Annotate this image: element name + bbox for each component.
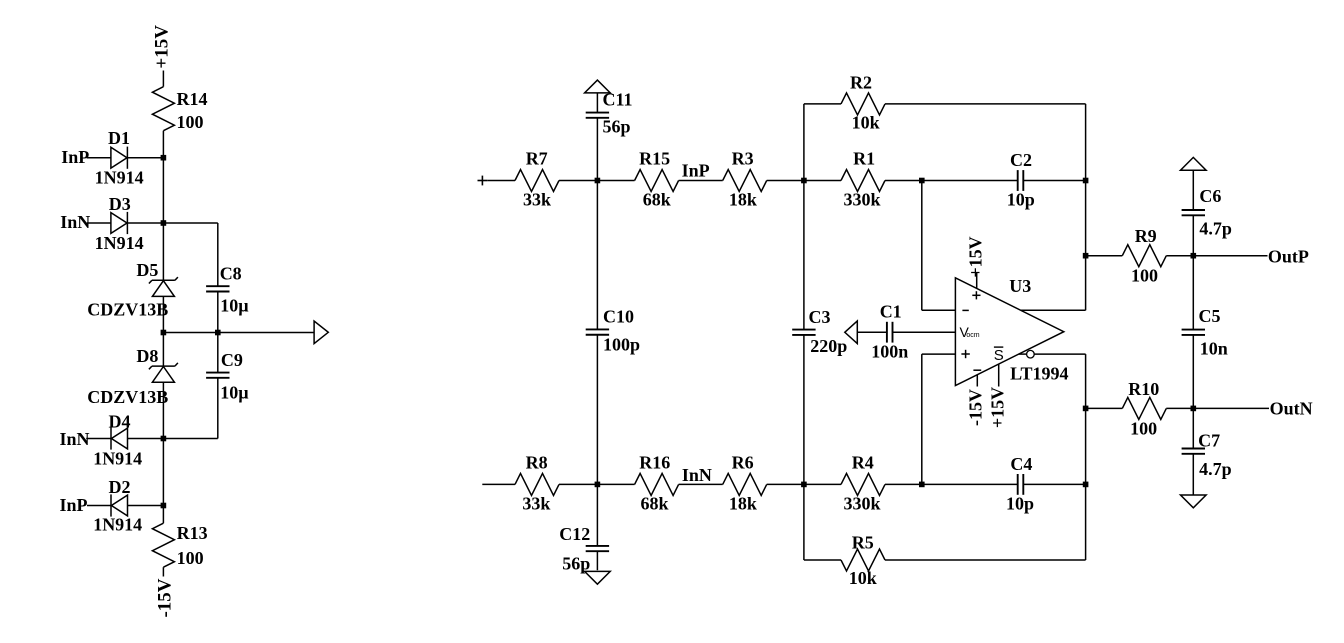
svg-text:100: 100 — [1131, 266, 1158, 286]
wire R2 down to C2 node — [1085, 104, 1087, 181]
wire C7 to ground arrow — [1192, 454, 1194, 496]
svg-text:D4: D4 — [109, 411, 131, 431]
wire R5 right — [885, 559, 1086, 561]
wire R16 to R6 — [679, 483, 723, 485]
capacitor C8 10u — [217, 223, 219, 286]
svg-text:CDZV13B: CDZV13B — [87, 300, 168, 320]
wire rail D3 to D5 — [162, 223, 164, 280]
wire right column upper — [1085, 181, 1087, 256]
svg-text:D5: D5 — [136, 260, 158, 280]
svg-text:C12: C12 — [559, 524, 590, 544]
wire C4 to right column — [1023, 483, 1086, 485]
svg-text:OutP: OutP — [1268, 246, 1309, 266]
diode D4 1N914 — [111, 428, 127, 449]
wire mid column to inverting input — [921, 181, 923, 311]
capacitor C7 4.7p — [1192, 408, 1194, 448]
resistor R14 — [152, 87, 174, 131]
node C8-C9 junction — [215, 330, 221, 336]
capacitor C1 100n — [886, 322, 888, 343]
svg-text:R4: R4 — [852, 453, 874, 473]
op-amp U3 LT1994 body — [955, 278, 1063, 386]
wire + to R7 — [487, 180, 515, 182]
resistor R16 68k — [635, 473, 679, 495]
wire R14 to node D1 — [162, 131, 164, 158]
svg-text:1N914: 1N914 — [93, 514, 142, 534]
resistor R7 33k — [515, 170, 559, 192]
node C2-R2 junction — [1083, 178, 1089, 184]
wire node to R15 — [597, 180, 634, 182]
resistor R3 18k — [723, 170, 767, 192]
wire output+ up right column — [1085, 256, 1087, 311]
svg-text:18k: 18k — [729, 493, 757, 513]
wire rail D4 to D2 — [162, 439, 164, 506]
wire R1 to mid node — [885, 180, 922, 182]
wire mid node to C2 — [922, 180, 1018, 182]
svg-text:C10: C10 — [603, 306, 634, 326]
svg-text:R3: R3 — [732, 149, 754, 169]
svg-text:100: 100 — [1130, 419, 1157, 439]
svg-text:100p: 100p — [603, 335, 640, 355]
svg-text:10p: 10p — [1006, 493, 1034, 513]
capacitor C2 10p — [1017, 170, 1019, 191]
wire output- to right column — [1034, 353, 1085, 355]
wire node to R1 — [804, 180, 841, 182]
svg-text:+15V: +15V — [151, 25, 172, 69]
capacitor C10 100p — [586, 328, 609, 330]
svg-text:R5: R5 — [852, 533, 874, 553]
wire D3 node to C8 column — [163, 222, 217, 224]
svg-text:100n: 100n — [871, 342, 908, 362]
op-amp inverting input marker — [962, 309, 968, 311]
svg-text:-15V: -15V — [154, 578, 175, 617]
ground arrow above C6 — [1181, 157, 1207, 170]
svg-text:InP: InP — [682, 161, 710, 181]
svg-text:C3: C3 — [809, 307, 831, 327]
op-amp inverted output circle — [1019, 353, 1027, 355]
wire C2 to right column — [1023, 180, 1086, 182]
svg-text:R7: R7 — [526, 149, 548, 169]
wire C3 column lower — [803, 335, 805, 485]
svg-text:220p: 220p — [810, 336, 847, 356]
output port arrow — [314, 321, 328, 344]
diode D2 1N914 — [111, 495, 127, 516]
svg-text:C6: C6 — [1199, 186, 1221, 206]
svg-text:10k: 10k — [852, 113, 880, 133]
svg-text:LT1994: LT1994 — [1010, 364, 1068, 384]
svg-text:10µ: 10µ — [220, 382, 249, 402]
wire node up to R2 row — [803, 104, 805, 181]
svg-text:C9: C9 — [221, 350, 243, 370]
wire C6 to OutP node — [1192, 215, 1194, 255]
svg-text:C5: C5 — [1199, 306, 1221, 326]
svg-text:33k: 33k — [522, 493, 550, 513]
node D2 junction — [161, 503, 167, 509]
resistor R13 — [152, 523, 174, 567]
svg-text:D8: D8 — [136, 346, 158, 366]
wire rail D1 to D3 — [162, 158, 164, 223]
svg-text:100: 100 — [177, 548, 204, 568]
wire C1 to Vocm pin — [892, 331, 955, 333]
op-amp V+ pin marker — [972, 294, 980, 296]
svg-text:33k: 33k — [523, 190, 551, 210]
svg-text:D2: D2 — [109, 477, 131, 497]
wire R9 to OutP node — [1166, 255, 1193, 257]
node D3-rail junction — [161, 220, 167, 226]
svg-text:1N914: 1N914 — [93, 449, 142, 469]
svg-text:100: 100 — [177, 112, 204, 132]
node R7-C11 junction — [595, 178, 601, 184]
wire D1 to rail — [127, 157, 163, 159]
wire C12 to ground arrow — [596, 552, 598, 571]
svg-text:-15V: -15V — [966, 389, 986, 426]
wire R2 right — [885, 103, 1086, 105]
ground arrow below C7 — [1181, 495, 1207, 508]
wire arrow to C1 — [857, 331, 887, 333]
node R1-C2 junction — [919, 178, 925, 184]
svg-text:InN: InN — [682, 465, 712, 485]
diode D1 1N914 — [111, 147, 127, 168]
wire C9 to D4 node — [217, 378, 219, 439]
svg-text:56p: 56p — [603, 117, 631, 137]
wire node down to R5 row — [803, 484, 805, 560]
wire +15V to R14 — [162, 71, 164, 87]
node C4 right junction — [1083, 482, 1089, 488]
wire C3 column upper — [803, 181, 805, 330]
capacitor C4 10p — [1017, 474, 1019, 495]
svg-text:InP: InP — [60, 495, 88, 515]
svg-text:C7: C7 — [1198, 431, 1220, 451]
node R4-C4 junction — [919, 482, 925, 488]
wire R10 to OutN node — [1166, 407, 1193, 409]
capacitor C5 10n — [1192, 256, 1194, 330]
resistor R1 330k — [841, 170, 885, 192]
svg-text:10n: 10n — [1200, 338, 1228, 358]
wire InN to D3 — [87, 222, 111, 224]
node D1-rail junction — [161, 155, 167, 161]
resistor R8 33k — [515, 473, 559, 495]
svg-text:1N914: 1N914 — [95, 233, 144, 253]
resistor R2 10k — [841, 93, 885, 115]
resistor R5 10k — [841, 549, 885, 571]
svg-text:R9: R9 — [1135, 226, 1157, 246]
wire R6 to node — [767, 483, 804, 485]
op-amp V- supply pin — [976, 375, 978, 387]
resistor R15 68k — [635, 170, 679, 192]
wire C5 to OutN node — [1192, 335, 1194, 409]
node output- junction — [1083, 406, 1089, 412]
port - input — [482, 483, 515, 485]
svg-text:InN: InN — [60, 429, 90, 449]
svg-text:U3: U3 — [1009, 276, 1031, 296]
resistor R10 100 — [1086, 407, 1123, 409]
capacitor C12 56p — [596, 484, 598, 545]
svg-text:10µ: 10µ — [220, 296, 249, 316]
wire C8 to mid node — [217, 292, 219, 333]
ground arrow above C11 — [585, 80, 611, 93]
wire op-amp output+ — [1021, 309, 1086, 311]
wire node to R4 — [804, 483, 841, 485]
svg-text:4.7p: 4.7p — [1199, 459, 1232, 479]
svg-text:+15V: +15V — [987, 387, 1007, 428]
wire C11 to node — [596, 118, 598, 181]
wire InP to D1 — [87, 157, 111, 159]
wire node to R16 — [597, 483, 634, 485]
port + input — [478, 180, 488, 182]
svg-text:S: S — [994, 347, 1004, 364]
wire mid node to output arrow — [163, 332, 314, 334]
capacitor C11 56p — [596, 93, 598, 113]
op-amp non-inverting input marker — [961, 353, 969, 355]
svg-text:68k: 68k — [643, 190, 671, 210]
wire R8 to node — [559, 483, 597, 485]
wire D2 to rail — [128, 505, 164, 507]
svg-text:1N914: 1N914 — [95, 167, 144, 187]
svg-text:4.7p: 4.7p — [1199, 218, 1232, 238]
wire R15 to R3 — [679, 180, 723, 182]
svg-text:D3: D3 — [109, 194, 131, 214]
node D4 junction — [161, 436, 167, 442]
op-amp V+ supply pin — [976, 272, 978, 288]
svg-text:R15: R15 — [639, 149, 670, 169]
svg-text:R2: R2 — [850, 72, 872, 92]
wire R2 left — [804, 103, 841, 105]
wire R4 to mid node — [885, 483, 922, 485]
svg-text:OutN: OutN — [1270, 399, 1313, 419]
node R6 junction — [801, 482, 807, 488]
svg-text:R10: R10 — [1128, 379, 1159, 399]
wire right column lower — [1085, 354, 1087, 560]
node OutN junction — [1191, 406, 1197, 412]
wire R7 to node — [559, 180, 597, 182]
svg-text:+15V: +15V — [966, 236, 986, 277]
svg-text:R1: R1 — [853, 149, 875, 169]
op-amp V- pin marker — [973, 369, 981, 371]
svg-text:R13: R13 — [177, 523, 208, 543]
wire D2 node to R13 — [162, 506, 164, 524]
svg-text:C11: C11 — [603, 89, 633, 109]
svg-text:68k: 68k — [641, 493, 669, 513]
port arrow at C1 — [845, 321, 858, 344]
wire D4 to rail — [128, 438, 164, 440]
svg-text:ocm: ocm — [966, 332, 979, 339]
svg-text:R16: R16 — [639, 453, 670, 473]
wire InN to D4 — [86, 438, 111, 440]
zener diode D8 CDZV13B — [162, 333, 164, 367]
svg-text:C8: C8 — [220, 263, 242, 283]
svg-text:InN: InN — [60, 212, 90, 232]
wire to OutN — [1193, 407, 1269, 409]
capacitor C6 4.7p — [1192, 170, 1194, 210]
svg-text:330k: 330k — [844, 190, 881, 210]
wire mid node to C4 — [922, 483, 1018, 485]
diode D3 1N914 — [111, 213, 127, 234]
wire InP to D2 — [87, 505, 111, 507]
node R3 junction — [801, 178, 807, 184]
ground arrow below C12 — [585, 571, 611, 584]
wire R13 to -15V — [162, 567, 164, 576]
node mid rail junction — [161, 330, 167, 336]
node OutP junction — [1191, 253, 1197, 259]
svg-text:C2: C2 — [1010, 150, 1032, 170]
capacitor C9 10u — [217, 333, 219, 373]
node R8-C12 junction — [595, 482, 601, 488]
svg-text:330k: 330k — [844, 493, 881, 513]
wire R3 to node — [767, 180, 804, 182]
wire D3 to rail — [127, 222, 163, 224]
svg-text:R8: R8 — [526, 453, 548, 473]
svg-text:CDZV13B: CDZV13B — [87, 387, 168, 407]
capacitor C3 220p — [792, 329, 815, 331]
wire R5 left — [804, 559, 841, 561]
svg-text:18k: 18k — [729, 190, 757, 210]
wire C10 to bottom node — [596, 335, 598, 485]
svg-text:InP: InP — [61, 147, 89, 167]
resistor R9 100 — [1086, 255, 1123, 257]
wire C10 column — [596, 181, 598, 330]
wire D8 to D4 node — [162, 382, 164, 438]
svg-text:C1: C1 — [880, 301, 902, 321]
wire to OutP — [1193, 255, 1267, 257]
resistor R4 330k — [841, 473, 885, 495]
zener diode D5 CDZV13B — [152, 279, 175, 281]
wire D5 to mid node — [162, 296, 164, 332]
svg-text:10k: 10k — [849, 568, 877, 588]
svg-text:D1: D1 — [108, 128, 130, 148]
svg-text:C4: C4 — [1010, 454, 1032, 474]
node output+ junction — [1083, 253, 1089, 259]
wire mid column to non-inverting input — [921, 354, 923, 484]
resistor R6 18k — [723, 473, 767, 495]
svg-text:R14: R14 — [177, 89, 208, 109]
svg-text:10p: 10p — [1007, 190, 1035, 210]
svg-text:R6: R6 — [732, 453, 754, 473]
